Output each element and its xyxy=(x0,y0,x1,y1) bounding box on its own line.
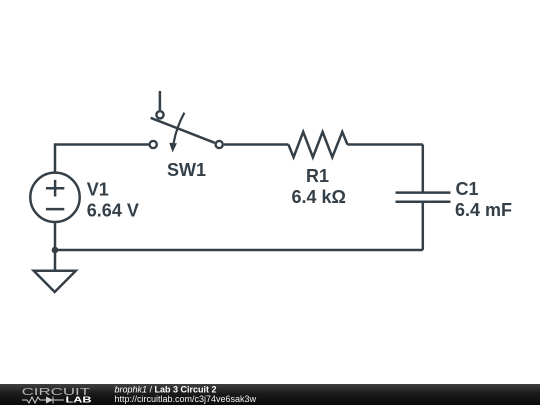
V1 minus sign xyxy=(46,208,64,211)
wire top-left from V1 to switch xyxy=(55,145,149,173)
wire switch top stub xyxy=(159,91,162,110)
svg-text:SW1: SW1 xyxy=(167,160,206,180)
wire right vertical bottom xyxy=(422,202,425,250)
node junction dot xyxy=(52,247,59,254)
voltage source V1 circle xyxy=(30,173,79,222)
wire bottom return xyxy=(55,249,423,252)
svg-text:http://circuitlab.com/c3j74ve6: http://circuitlab.com/c3j74ve6sak3w xyxy=(115,394,257,404)
wire switch to resistor xyxy=(224,143,288,146)
svg-text:6.64 V: 6.64 V xyxy=(87,201,139,221)
wire resistor to capacitor xyxy=(347,143,422,146)
svg-text:C1: C1 xyxy=(456,179,479,199)
footer bar xyxy=(0,384,540,405)
ground symbol xyxy=(34,271,76,292)
switch right terminal circle xyxy=(216,141,223,148)
switch actuation arrow xyxy=(169,113,184,153)
svg-text:R1: R1 xyxy=(306,166,329,186)
wire V1 bottom stub xyxy=(54,222,57,250)
capacitor C1 top plate xyxy=(396,191,451,194)
svg-text:6.4 mF: 6.4 mF xyxy=(455,200,512,220)
svg-text:V1: V1 xyxy=(87,180,109,200)
switch SW1 blade xyxy=(151,118,215,143)
CircuitLab logo doodle wire-resistor-diode xyxy=(22,397,64,404)
V1 plus sign xyxy=(46,180,64,197)
wire ground stub xyxy=(54,250,57,271)
switch left terminal circle xyxy=(150,141,157,148)
resistor R1 zigzag xyxy=(288,132,347,157)
svg-text:6.4 kΩ: 6.4 kΩ xyxy=(292,187,346,207)
svg-text:LAB: LAB xyxy=(66,396,92,405)
wire right vertical top to C1 xyxy=(422,145,425,193)
capacitor C1 bottom plate xyxy=(396,201,451,204)
switch top terminal circle xyxy=(156,111,163,118)
